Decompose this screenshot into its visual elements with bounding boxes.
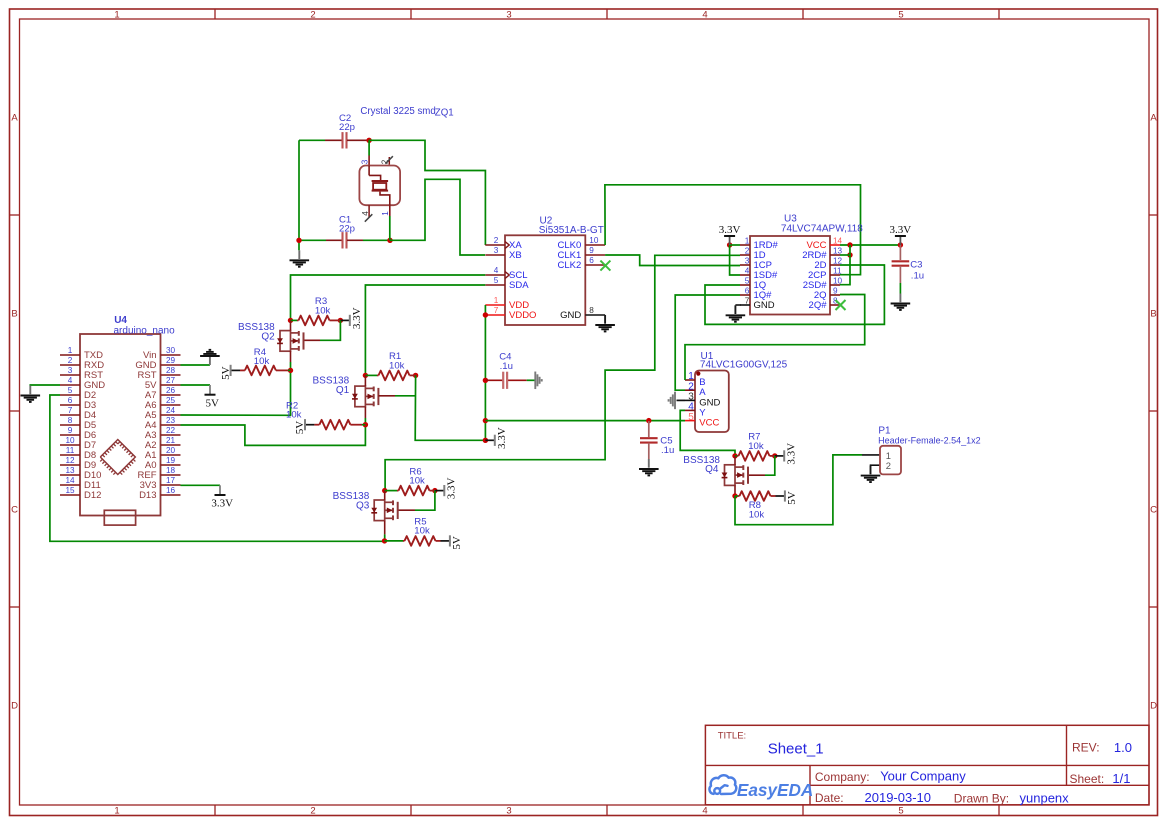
svg-text:Date:: Date: (815, 791, 844, 805)
svg-text:Sheet:: Sheet: (1070, 772, 1105, 786)
svg-text:1: 1 (114, 10, 119, 21)
svg-text:74LVC1G00GV,125: 74LVC1G00GV,125 (700, 360, 788, 371)
svg-text:16: 16 (166, 486, 176, 495)
svg-text:25: 25 (166, 396, 176, 405)
svg-text:3: 3 (360, 159, 369, 164)
svg-text:GND: GND (560, 310, 581, 321)
svg-text:10k: 10k (409, 476, 425, 487)
svg-text:10k: 10k (315, 305, 331, 316)
svg-text:2: 2 (494, 236, 499, 245)
svg-text:6: 6 (68, 396, 73, 405)
svg-text:21: 21 (166, 436, 176, 445)
svg-text:XB: XB (509, 250, 522, 261)
svg-text:7: 7 (68, 406, 73, 415)
svg-text:A: A (11, 113, 18, 124)
svg-text:GND: GND (754, 300, 775, 311)
svg-text:5V: 5V (294, 421, 306, 435)
svg-text:4: 4 (745, 266, 750, 275)
svg-text:Q2: Q2 (261, 331, 275, 342)
svg-text:Sheet_1: Sheet_1 (768, 741, 824, 758)
svg-text:.1u: .1u (661, 445, 674, 456)
svg-text:Header-Female-2.54_1x2: Header-Female-2.54_1x2 (878, 435, 981, 445)
svg-text:6: 6 (745, 286, 750, 295)
svg-text:REV:: REV: (1072, 741, 1100, 755)
svg-text:15: 15 (65, 486, 75, 495)
svg-text:9: 9 (589, 246, 594, 255)
svg-text:2019-03-10: 2019-03-10 (865, 790, 932, 805)
svg-text:3.3V: 3.3V (496, 427, 508, 449)
svg-text:29: 29 (166, 356, 176, 365)
svg-text:D: D (11, 701, 18, 712)
svg-text:D13: D13 (139, 490, 156, 501)
svg-text:28: 28 (166, 366, 176, 375)
svg-text:12: 12 (65, 456, 75, 465)
svg-text:10: 10 (589, 236, 599, 245)
svg-text:19: 19 (166, 456, 176, 465)
svg-text:CLK2: CLK2 (558, 260, 582, 271)
svg-text:5: 5 (494, 276, 499, 285)
svg-text:11: 11 (833, 266, 842, 275)
svg-text:5V: 5V (220, 366, 232, 380)
svg-text:6: 6 (589, 256, 594, 265)
svg-text:9: 9 (68, 426, 73, 435)
svg-text:3.3V: 3.3V (785, 443, 797, 465)
svg-text:Crystal 3225 smd: Crystal 3225 smd (360, 106, 435, 117)
svg-text:14: 14 (833, 236, 843, 245)
svg-text:3.3V: 3.3V (211, 498, 233, 510)
svg-text:SDA: SDA (509, 280, 529, 291)
svg-text:10k: 10k (749, 510, 765, 521)
svg-text:Company:: Company: (815, 770, 870, 784)
svg-text:Your Company: Your Company (880, 769, 966, 784)
svg-text:yunpenx: yunpenx (1020, 791, 1070, 806)
svg-text:5: 5 (898, 806, 903, 817)
svg-text:ZQ1: ZQ1 (435, 108, 454, 119)
svg-text:5: 5 (745, 276, 750, 285)
svg-text:TITLE:: TITLE: (718, 731, 747, 742)
svg-text:C3: C3 (910, 259, 922, 270)
svg-text:3: 3 (506, 806, 511, 817)
svg-text:3.3V: 3.3V (719, 224, 741, 236)
svg-text:10k: 10k (414, 525, 430, 536)
svg-text:10k: 10k (254, 356, 270, 367)
svg-text:Drawn By:: Drawn By: (954, 791, 1009, 805)
svg-text:3: 3 (506, 10, 511, 21)
svg-text:3.3V: 3.3V (890, 224, 912, 236)
svg-text:5: 5 (898, 10, 903, 21)
svg-text:3.3V: 3.3V (446, 478, 458, 500)
svg-text:5V: 5V (205, 397, 219, 409)
svg-text:2: 2 (745, 246, 750, 255)
svg-text:2: 2 (886, 460, 891, 471)
svg-text:26: 26 (166, 386, 176, 395)
svg-text:8: 8 (589, 306, 594, 315)
svg-text:14: 14 (65, 476, 75, 485)
svg-text:10k: 10k (286, 410, 302, 421)
svg-text:4: 4 (702, 10, 707, 21)
svg-text:2: 2 (310, 10, 315, 21)
svg-text:4: 4 (702, 806, 707, 817)
svg-text:.1u: .1u (911, 271, 924, 282)
svg-text:24: 24 (166, 406, 176, 415)
svg-text:D12: D12 (84, 490, 101, 501)
svg-text:9: 9 (833, 286, 838, 295)
svg-text:7: 7 (745, 296, 750, 305)
svg-text:1: 1 (114, 806, 119, 817)
svg-text:8: 8 (68, 416, 73, 425)
svg-text:2: 2 (68, 356, 73, 365)
svg-text:3: 3 (68, 366, 73, 375)
svg-text:VCC: VCC (699, 418, 719, 429)
svg-text:1: 1 (745, 236, 750, 245)
svg-text:1: 1 (68, 346, 73, 355)
svg-text:3: 3 (745, 256, 750, 265)
svg-text:2Q#: 2Q# (809, 300, 828, 311)
svg-text:Q4: Q4 (705, 464, 719, 475)
svg-text:22p: 22p (339, 224, 355, 235)
svg-text:VDDO: VDDO (509, 310, 536, 321)
svg-text:74LVC74APW,118: 74LVC74APW,118 (781, 223, 863, 234)
svg-text:7: 7 (494, 306, 499, 315)
svg-text:EasyEDA: EasyEDA (737, 780, 813, 800)
svg-text:Q1: Q1 (336, 385, 350, 396)
svg-text:1.0: 1.0 (1114, 740, 1132, 755)
svg-text:2: 2 (310, 806, 315, 817)
svg-text:.1u: .1u (500, 361, 513, 372)
svg-text:30: 30 (166, 346, 176, 355)
svg-text:10: 10 (65, 436, 75, 445)
svg-text:18: 18 (166, 466, 176, 475)
svg-text:22: 22 (166, 426, 176, 435)
svg-text:3: 3 (494, 246, 499, 255)
svg-text:23: 23 (166, 416, 176, 425)
svg-text:Si5351A-B-GT: Si5351A-B-GT (539, 225, 604, 236)
svg-text:10k: 10k (748, 441, 764, 452)
svg-text:4: 4 (494, 266, 499, 275)
svg-text:Q3: Q3 (356, 500, 370, 511)
svg-text:C: C (11, 505, 18, 516)
svg-text:1: 1 (381, 211, 390, 216)
svg-text:B: B (1150, 309, 1156, 320)
svg-text:12: 12 (833, 256, 843, 265)
svg-text:5V: 5V (786, 491, 798, 505)
svg-text:1/1: 1/1 (1112, 771, 1130, 786)
svg-text:11: 11 (66, 446, 75, 455)
svg-text:13: 13 (833, 246, 843, 255)
svg-text:22p: 22p (339, 122, 355, 133)
svg-text:A: A (1150, 113, 1157, 124)
svg-text:17: 17 (166, 476, 176, 485)
svg-text:5: 5 (688, 412, 694, 423)
svg-text:arduino_nano: arduino_nano (114, 325, 176, 336)
svg-text:D: D (1150, 701, 1157, 712)
svg-text:20: 20 (166, 446, 176, 455)
svg-text:10k: 10k (389, 360, 405, 371)
svg-text:B: B (11, 309, 17, 320)
svg-text:27: 27 (166, 376, 176, 385)
svg-text:13: 13 (65, 466, 75, 475)
svg-text:1: 1 (494, 296, 499, 305)
svg-text:3.3V: 3.3V (351, 307, 363, 329)
svg-text:5V: 5V (451, 536, 463, 550)
svg-text:4: 4 (68, 376, 73, 385)
svg-text:C: C (1150, 505, 1157, 516)
svg-text:5: 5 (68, 386, 73, 395)
